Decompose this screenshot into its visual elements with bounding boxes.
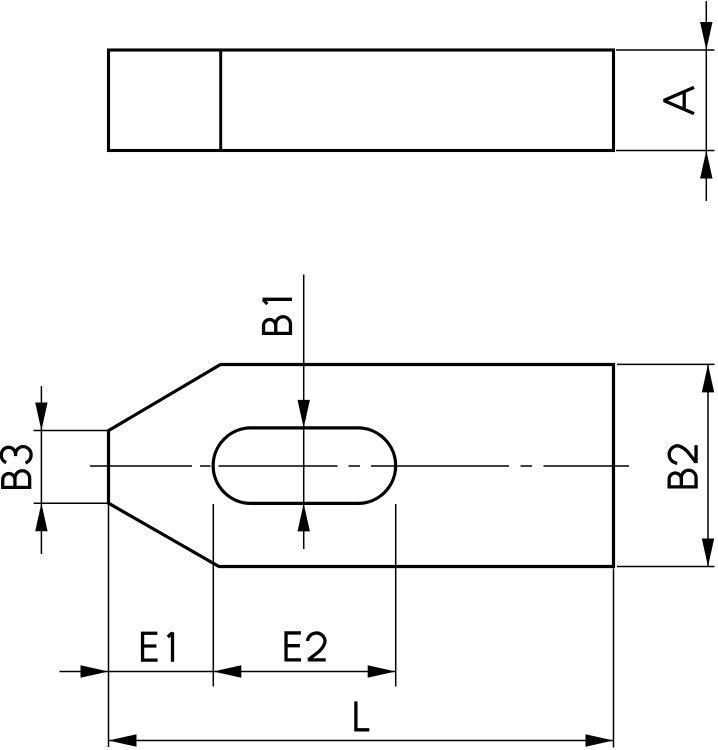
arrow L right (pointing right) xyxy=(586,734,614,746)
extension lines B2 xyxy=(617,364,715,566)
label B2 xyxy=(668,445,698,488)
plate body outline (side view) xyxy=(109,50,614,151)
label B3 xyxy=(1,447,31,489)
dimension B2 line xyxy=(707,364,709,566)
dimension E1/E2 line xyxy=(60,671,396,673)
dimension L line xyxy=(109,740,614,742)
arrow B3 bottom xyxy=(35,503,47,531)
arrow L left (pointing left) xyxy=(109,734,137,746)
extension line E2 right xyxy=(395,504,397,687)
arrow B1 top xyxy=(298,400,310,428)
arrow A top xyxy=(700,22,712,50)
extension line top (A) xyxy=(616,49,715,51)
extension line bottom (A) xyxy=(616,150,715,152)
extension lines B3 xyxy=(34,431,109,504)
edge line (chamfer projection) xyxy=(219,50,222,151)
dimension B1 line xyxy=(303,275,305,550)
arrow B2 bottom xyxy=(702,539,714,567)
arrow B1 bottom xyxy=(298,503,310,531)
dimension line A xyxy=(705,1,707,201)
arrow E1 left (outside, pointing right) xyxy=(81,665,109,677)
slot (elongated hole) xyxy=(213,428,396,504)
extension line E1 left / L left xyxy=(108,503,110,747)
centerline xyxy=(90,465,629,467)
extension line E1/E2 shared xyxy=(212,504,214,687)
arrow B2 top xyxy=(702,364,714,392)
dimension B3 line xyxy=(40,386,42,554)
arrow E2 left (pointing left) xyxy=(213,665,241,677)
arrow A bottom xyxy=(700,151,712,179)
arrow E2 right (pointing right) xyxy=(368,665,396,677)
extension line L right xyxy=(613,569,615,748)
label E2 xyxy=(285,631,326,661)
label A xyxy=(665,87,694,113)
arrow B3 top xyxy=(35,403,47,431)
label B1 xyxy=(262,299,292,335)
label L xyxy=(355,701,370,731)
plate outline (plan) xyxy=(109,365,614,567)
label E1 xyxy=(141,632,173,662)
